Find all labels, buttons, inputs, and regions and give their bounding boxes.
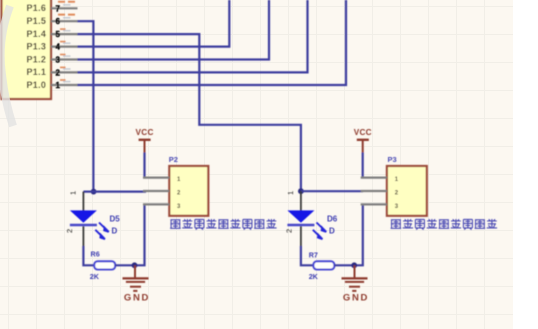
svg-text:P1.5: P1.5 bbox=[26, 16, 46, 26]
pin P1.2 stub bbox=[51, 55, 78, 65]
wire D6 cathode to R7 bbox=[301, 246, 313, 265]
LED D6 bbox=[285, 191, 327, 246]
wire P1.1 to top edge bbox=[77, 0, 308, 72]
label: sensor description (right, Chinese) bbox=[391, 219, 498, 230]
svg-text:D: D bbox=[112, 227, 118, 236]
connector U1 (MCU port P1 box, partially cut at top) bbox=[2, 0, 52, 99]
svg-text:P1.3: P1.3 bbox=[26, 41, 46, 51]
pin P1.1 stub bbox=[51, 67, 78, 77]
pin P1.4 stub bbox=[51, 29, 78, 39]
connector P2 bbox=[169, 155, 209, 216]
node C: junction dot D6 anode bbox=[298, 188, 304, 194]
svg-text:R6: R6 bbox=[91, 250, 100, 259]
svg-text:7: 7 bbox=[56, 4, 61, 13]
svg-text:2: 2 bbox=[65, 229, 74, 233]
resistor R7 bbox=[309, 251, 335, 282]
svg-text:P2: P2 bbox=[169, 155, 178, 164]
svg-text:6: 6 bbox=[56, 17, 61, 26]
LED D5 bbox=[65, 191, 109, 246]
wire VCC to P2 pin 1 bbox=[143, 153, 145, 178]
wire P3 pin 3 to GND node bbox=[354, 204, 363, 265]
node B: junction dot GND left bbox=[132, 262, 138, 268]
svg-text:GND: GND bbox=[124, 293, 150, 304]
VCC power port (right) bbox=[354, 128, 372, 153]
svg-text:P1.0: P1.0 bbox=[26, 80, 46, 90]
svg-text:1: 1 bbox=[68, 191, 77, 195]
pin P1.6 stub bbox=[51, 4, 78, 13]
svg-text:VCC: VCC bbox=[354, 128, 372, 137]
ground GND (left) bbox=[123, 265, 151, 303]
svg-text:2K: 2K bbox=[309, 272, 319, 281]
watermark arc (decorative) bbox=[1, 6, 13, 126]
connector P3 bbox=[387, 155, 427, 216]
wire P2 pin 3 to GND node bbox=[135, 204, 145, 265]
svg-text:5: 5 bbox=[56, 30, 61, 39]
wire P1.5 to LED D5 node bbox=[77, 21, 93, 191]
wire node A to P2 pin 2 bbox=[83, 191, 146, 193]
pin P1.0 stub bbox=[51, 80, 78, 90]
svg-text:2: 2 bbox=[285, 229, 294, 233]
svg-text:D6: D6 bbox=[327, 215, 338, 224]
P2 pin 2 bbox=[143, 191, 181, 197]
wire R7 to GND node bbox=[334, 264, 354, 266]
P3 pin 2 bbox=[361, 191, 399, 197]
svg-text:VCC: VCC bbox=[136, 128, 154, 137]
P3 pin 1 bbox=[361, 177, 399, 183]
pin P1.3 stub bbox=[51, 42, 78, 52]
svg-text:P3: P3 bbox=[388, 155, 397, 164]
node D: junction dot GND right bbox=[351, 262, 357, 268]
label: sensor description (left, Chinese) bbox=[170, 219, 277, 230]
wire R6 to GND node bbox=[115, 264, 134, 266]
net label P15 (orange marks) bbox=[58, 14, 78, 16]
svg-text:4: 4 bbox=[56, 43, 61, 52]
wire D5 cathode to R6 bbox=[83, 246, 94, 265]
svg-text:1: 1 bbox=[56, 81, 61, 90]
pin P1.5 stub bbox=[51, 17, 78, 26]
svg-text:P1.6: P1.6 bbox=[26, 3, 46, 13]
node A: junction dot D5 anode bbox=[91, 189, 97, 195]
resistor R6 bbox=[90, 250, 115, 282]
wire P1.2 to top edge bbox=[77, 0, 269, 60]
P3 pin 3 bbox=[361, 204, 399, 210]
svg-text:3: 3 bbox=[56, 56, 61, 65]
VCC power port (left) bbox=[136, 128, 154, 153]
svg-text:2K: 2K bbox=[90, 272, 100, 281]
svg-text:P1.1: P1.1 bbox=[26, 67, 46, 77]
wire VCC to P3 pin 1 bbox=[362, 153, 364, 178]
svg-text:D5: D5 bbox=[110, 215, 121, 224]
wire P1.4 to LED D6 node bbox=[77, 34, 301, 191]
net label P16 (orange marks) bbox=[58, 1, 78, 3]
svg-text:D: D bbox=[329, 227, 335, 236]
P2 pin 1 bbox=[143, 177, 181, 183]
svg-text:P1.2: P1.2 bbox=[26, 54, 46, 64]
wire P1.0 to top edge bbox=[77, 0, 346, 85]
ground GND (right) bbox=[342, 265, 370, 303]
svg-text:1: 1 bbox=[286, 191, 295, 195]
P2 pin 3 bbox=[143, 204, 181, 210]
svg-text:R7: R7 bbox=[309, 251, 318, 260]
svg-text:2: 2 bbox=[56, 68, 61, 77]
svg-text:P1.4: P1.4 bbox=[26, 29, 46, 39]
svg-text:GND: GND bbox=[343, 293, 369, 304]
wire node C to P3 pin 2 bbox=[301, 190, 363, 192]
wire P1.3 to top edge bbox=[77, 0, 229, 47]
